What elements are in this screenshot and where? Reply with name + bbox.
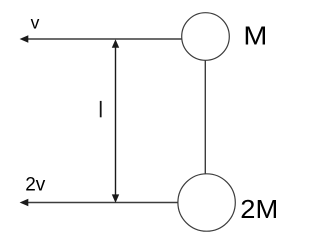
svg-text:v: v (31, 13, 40, 33)
svg-text:M: M (243, 21, 267, 50)
svg-text:2v: 2v (25, 175, 46, 196)
svg-text:2M: 2M (240, 195, 278, 224)
